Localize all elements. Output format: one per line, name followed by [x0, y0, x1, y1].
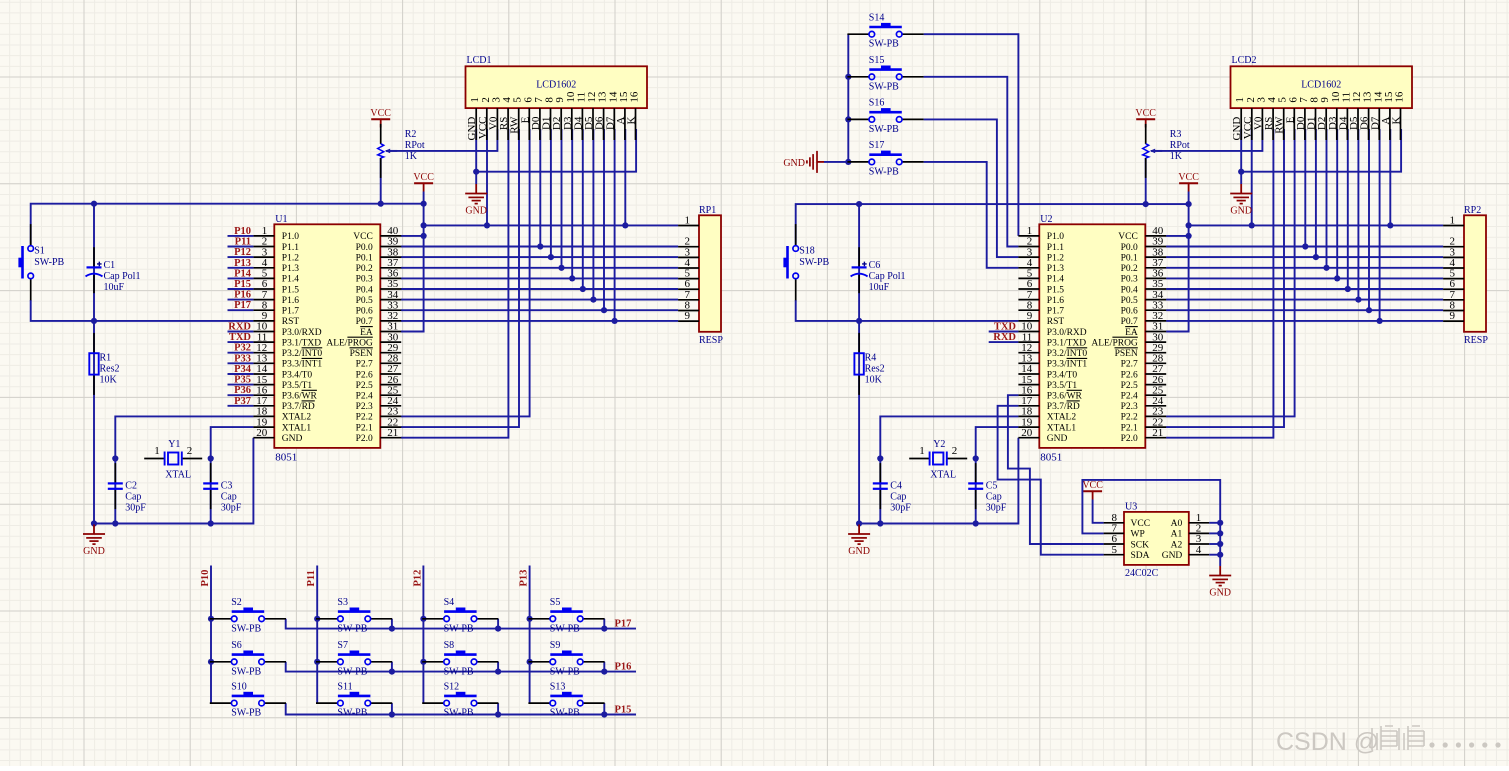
- svg-text:P2.6: P2.6: [356, 370, 373, 380]
- svg-text:GND: GND: [783, 158, 805, 169]
- svg-text:SW-PB: SW-PB: [550, 623, 580, 634]
- svg-text:P1.0: P1.0: [282, 232, 299, 242]
- svg-text:P1.4: P1.4: [1047, 275, 1064, 285]
- svg-text:SW-PB: SW-PB: [337, 708, 367, 719]
- svg-text:S13: S13: [550, 681, 566, 692]
- svg-text:EA: EA: [360, 328, 373, 338]
- svg-text:P3.6/WR: P3.6/WR: [282, 392, 318, 402]
- svg-text:C4: C4: [890, 481, 902, 492]
- svg-text:SW-PB: SW-PB: [869, 39, 899, 50]
- svg-text:R1: R1: [100, 353, 112, 364]
- svg-text:P0.1: P0.1: [356, 253, 373, 263]
- svg-text:10K: 10K: [865, 375, 883, 386]
- svg-text:P1.1: P1.1: [282, 243, 299, 253]
- svg-text:S4: S4: [444, 597, 455, 608]
- svg-text:P0.4: P0.4: [1121, 285, 1138, 295]
- svg-text:S7: S7: [337, 640, 348, 651]
- wire LCD1 data D0-D7 drops: [539, 129, 541, 247]
- svg-text:Y2: Y2: [933, 439, 945, 450]
- svg-text:LCD1602: LCD1602: [536, 79, 576, 90]
- svg-text:P2.4: P2.4: [1121, 392, 1138, 402]
- svg-text:S18: S18: [799, 246, 815, 257]
- wire RST net right (S18/C6/R4 to U2 pin 9): [796, 300, 1019, 321]
- wire VCC rail right (S18/C6/R3/VCC): [796, 204, 1189, 246]
- svg-text:P3.0/RXD: P3.0/RXD: [1047, 328, 1087, 338]
- wire LCD2 data D0-D7 drops: [1304, 129, 1306, 247]
- svg-text:1: 1: [919, 445, 925, 457]
- wire row net P16: [286, 661, 636, 674]
- wire LCD2 pin15 A drop: [1389, 129, 1391, 225]
- wire R3 bottom to rail: [1145, 158, 1147, 204]
- resistor R4 Res2 10K: [854, 333, 884, 395]
- svg-text:30pF: 30pF: [221, 503, 242, 514]
- wire LCD1 pin16 K to GND: [476, 129, 636, 172]
- svg-text:VCC: VCC: [353, 232, 373, 242]
- svg-text:P3.2/INT0: P3.2/INT0: [1047, 349, 1088, 359]
- svg-text:S3: S3: [337, 597, 348, 608]
- power VCC symbol above R2: [370, 108, 391, 128]
- pushbutton S8 SW-PB: [422, 640, 498, 677]
- svg-text:P32: P32: [234, 343, 251, 354]
- wire RST net (S1 bottom / C1 / R1 to U1 pin 9): [31, 300, 254, 321]
- svg-text:SCK: SCK: [1131, 540, 1150, 550]
- net labels P10-P17 on U1 pins 1-8: [228, 226, 254, 311]
- power VCC symbol at U3: [1082, 480, 1103, 500]
- svg-text:A1: A1: [1171, 530, 1183, 540]
- svg-text:EA: EA: [1125, 328, 1138, 338]
- wire crystal net / C2 / C3 verticals: [114, 459, 116, 524]
- svg-text:S12: S12: [444, 681, 460, 692]
- svg-text:SW-PB: SW-PB: [869, 166, 899, 177]
- svg-text:VCC: VCC: [1082, 480, 1103, 491]
- svg-text:P2.3: P2.3: [1121, 402, 1138, 412]
- svg-text:Cap: Cap: [125, 492, 141, 503]
- svg-text:P0.1: P0.1: [1121, 253, 1138, 263]
- wire LCD2 pin1 GND drop: [1240, 129, 1242, 184]
- wire U3 right pins to GND column: [1209, 520, 1223, 558]
- wire R2 wiper to LCD1 V0: [386, 129, 497, 151]
- svg-text:SW-PB: SW-PB: [231, 666, 261, 677]
- svg-text:P3.0/RXD: P3.0/RXD: [282, 328, 322, 338]
- svg-text:9: 9: [685, 310, 691, 322]
- power GND symbol below LCD1: [465, 184, 487, 217]
- svg-text:P3.6/WR: P3.6/WR: [1047, 392, 1083, 402]
- wire C6 vertical: [858, 204, 860, 321]
- wire XTAL1 (U1 pin19) to Y1/C3: [211, 427, 254, 458]
- svg-text:C5: C5: [986, 481, 998, 492]
- wire R3 wiper to LCD2 V0: [1151, 129, 1262, 151]
- svg-text:P0.3: P0.3: [356, 275, 373, 285]
- pushbutton S6 SW-PB: [210, 640, 286, 677]
- svg-text:P14: P14: [234, 268, 252, 279]
- junction dots on right VCC net: [856, 201, 1393, 239]
- svg-text:P1.6: P1.6: [1047, 296, 1064, 306]
- resistor R3 RPot 1K: [1143, 124, 1190, 178]
- pushbutton S13 SW-PB: [528, 681, 604, 718]
- wire LCD2 pin16 K to GND: [1241, 129, 1401, 172]
- wire VCC line to RP1 pin 1: [424, 224, 678, 226]
- pushbutton S16 SW-PB: [847, 98, 923, 135]
- svg-text:VCC: VCC: [1178, 172, 1199, 183]
- wire right crystal net / C4 / C5 verticals: [879, 459, 881, 524]
- svg-text:SW-PB: SW-PB: [444, 666, 474, 677]
- svg-text:21: 21: [387, 427, 398, 439]
- svg-text:1: 1: [685, 215, 691, 227]
- svg-text:P0.7: P0.7: [356, 317, 373, 327]
- svg-text:P2.0: P2.0: [356, 434, 373, 444]
- svg-text:P0.6: P0.6: [356, 307, 373, 317]
- svg-text:K: K: [1391, 117, 1403, 125]
- memory IC U3 24C02C: [1124, 501, 1189, 579]
- svg-text:P1.2: P1.2: [282, 253, 299, 263]
- svg-text:VCC: VCC: [413, 172, 434, 183]
- svg-text:PSEN: PSEN: [1115, 349, 1138, 359]
- svg-text:S8: S8: [444, 640, 455, 651]
- svg-text:SW-PB: SW-PB: [444, 623, 474, 634]
- pushbutton S15 SW-PB: [847, 55, 923, 92]
- svg-text:XTAL1: XTAL1: [1047, 423, 1077, 433]
- wire U2 VCC pin 40 stub: [1166, 235, 1189, 237]
- svg-text:P0.5: P0.5: [356, 296, 373, 306]
- svg-text:P3.2/INT0: P3.2/INT0: [282, 349, 323, 359]
- svg-text:VCC: VCC: [1118, 232, 1138, 242]
- pushbutton S4 SW-PB: [422, 597, 498, 634]
- svg-text:Cap: Cap: [986, 492, 1002, 503]
- op IC U1 8051: [274, 214, 380, 464]
- svg-text:5: 5: [1112, 544, 1118, 556]
- svg-text:RPot: RPot: [405, 140, 425, 151]
- svg-text:ALE/PROG: ALE/PROG: [326, 338, 373, 348]
- svg-text:WP: WP: [1131, 530, 1145, 540]
- svg-text:P13: P13: [519, 570, 530, 587]
- wire S14-S17 common column to GND: [847, 34, 849, 162]
- svg-text:LCD2: LCD2: [1232, 55, 1257, 66]
- svg-text:20: 20: [1021, 427, 1033, 439]
- svg-text:P2.1: P2.1: [356, 423, 373, 433]
- svg-text:8051: 8051: [275, 451, 297, 463]
- svg-text:P0.6: P0.6: [1121, 307, 1138, 317]
- connector LCD1 LCD1602: [466, 55, 648, 108]
- svg-text:P0.2: P0.2: [1121, 264, 1138, 274]
- svg-text:P2.3: P2.3: [356, 402, 373, 412]
- pushbutton S1 SW-PB: [18, 224, 64, 300]
- svg-text:P1.1: P1.1: [1047, 243, 1064, 253]
- svg-text:9: 9: [1450, 310, 1456, 322]
- junction dots on VCC net: [91, 201, 629, 239]
- net labels RXD TXD on U1 pins 10-11: [228, 322, 254, 344]
- pushbutton S5 SW-PB: [528, 597, 604, 634]
- svg-text:P3.3/INT1: P3.3/INT1: [1047, 360, 1088, 370]
- svg-text:RPot: RPot: [1170, 140, 1190, 151]
- svg-text:P3.7/RD: P3.7/RD: [1047, 402, 1080, 412]
- svg-text:P0.3: P0.3: [1121, 275, 1138, 285]
- wire VCC drop to U1 pin40 and EA: [401, 192, 424, 332]
- svg-text:2: 2: [952, 445, 958, 457]
- svg-text:P2.0: P2.0: [1121, 434, 1138, 444]
- svg-text:Res2: Res2: [865, 364, 885, 375]
- wire LCD1 RW to U1 P2.1: [401, 129, 519, 427]
- svg-text:P34: P34: [234, 364, 252, 375]
- svg-text:P2.5: P2.5: [356, 381, 373, 391]
- svg-text:RP1: RP1: [699, 205, 716, 216]
- resistor R2 RPot 1K: [378, 124, 425, 178]
- svg-text:XTAL: XTAL: [165, 470, 191, 481]
- capacitor C2 30pF: [108, 463, 147, 513]
- svg-text:P1.3: P1.3: [282, 264, 299, 274]
- svg-text:P3.1/TXD: P3.1/TXD: [1047, 338, 1086, 348]
- svg-text:P10: P10: [234, 226, 251, 237]
- pushbutton S12 SW-PB: [422, 681, 498, 718]
- svg-text:XTAL2: XTAL2: [282, 413, 312, 423]
- svg-text:PSEN: PSEN: [350, 349, 373, 359]
- svg-text:P0.0: P0.0: [356, 243, 373, 253]
- svg-text:P0.4: P0.4: [356, 285, 373, 295]
- svg-text:P13: P13: [234, 258, 251, 269]
- svg-text:C6: C6: [869, 260, 881, 271]
- wire LCD1 E to U1 P2.2: [401, 129, 530, 416]
- pushbutton S10 SW-PB: [210, 681, 286, 718]
- svg-text:P2.5: P2.5: [1121, 381, 1138, 391]
- net labels P32-P37 on U1 pins 12-17: [228, 343, 254, 407]
- wire LCD2 E to U2 P2.2: [1166, 129, 1295, 416]
- wire R4 to GND rail: [858, 321, 860, 524]
- svg-text:30pF: 30pF: [125, 503, 146, 514]
- wire row net P17: [286, 618, 636, 631]
- wire P0 bus rows U2 to RP2: [1166, 246, 1443, 248]
- wire XTAL1 (U2 pin19) to Y2/C5: [976, 427, 1019, 458]
- svg-text:P1.5: P1.5: [1047, 285, 1064, 295]
- svg-text:P1.2: P1.2: [1047, 253, 1064, 263]
- wire SCK U2 P3.6 to U3: [1008, 395, 1104, 544]
- svg-text:Cap Pol1: Cap Pol1: [869, 271, 906, 282]
- svg-text:SW-PB: SW-PB: [550, 708, 580, 719]
- svg-text:SW-PB: SW-PB: [444, 708, 474, 719]
- svg-text:P2.2: P2.2: [356, 413, 373, 423]
- svg-text:P2.7: P2.7: [356, 360, 373, 370]
- svg-text:GND: GND: [1230, 206, 1252, 217]
- wire LCD2 pin2 VCC drop: [1251, 129, 1253, 225]
- svg-text:RST: RST: [282, 317, 300, 327]
- svg-text:P17: P17: [615, 618, 632, 629]
- connector LCD2 LCD1602: [1231, 55, 1413, 108]
- svg-text:XTAL2: XTAL2: [1047, 413, 1077, 423]
- svg-text:1K: 1K: [405, 151, 418, 162]
- svg-text:Res2: Res2: [100, 364, 120, 375]
- svg-text:VCC: VCC: [1135, 108, 1156, 119]
- svg-text:P1.3: P1.3: [1047, 264, 1064, 274]
- svg-text:GND: GND: [1209, 588, 1231, 599]
- svg-text:P3.7/RD: P3.7/RD: [282, 402, 315, 412]
- svg-text:TXD: TXD: [994, 322, 1017, 333]
- svg-text:P3.3/INT1: P3.3/INT1: [282, 360, 323, 370]
- svg-text:P2.7: P2.7: [1121, 360, 1138, 370]
- capacitor C6 Cap Pol1 10uF: [851, 247, 906, 293]
- svg-text:P2.1: P2.1: [1121, 423, 1138, 433]
- svg-text:P1.0: P1.0: [1047, 232, 1064, 242]
- svg-text:U3: U3: [1125, 501, 1137, 512]
- capacitor C4 30pF: [873, 463, 912, 513]
- op IC U2 8051: [1039, 214, 1145, 464]
- resistor R1 Res2 10K: [89, 333, 119, 395]
- svg-text:SW-PB: SW-PB: [231, 623, 261, 634]
- wire LCD1 pin2 VCC drop: [486, 129, 488, 225]
- wire U3 VCC pin 8: [1093, 500, 1104, 523]
- pushbutton S9 SW-PB: [528, 640, 604, 677]
- pushbutton S2 SW-PB: [210, 597, 286, 634]
- wire S15 to U2 pin 2: [924, 77, 1019, 247]
- resistor pack RP2 RESP: [1464, 205, 1488, 346]
- svg-text:30pF: 30pF: [890, 503, 911, 514]
- svg-text:S16: S16: [869, 98, 885, 109]
- power GND symbol bottom left: [83, 525, 105, 558]
- svg-text:VCC: VCC: [370, 108, 391, 119]
- svg-text:XTAL1: XTAL1: [282, 423, 312, 433]
- svg-text:10uF: 10uF: [104, 282, 125, 293]
- svg-text:RESP: RESP: [699, 335, 723, 346]
- wire R2 bottom to rail: [380, 158, 382, 204]
- wire SDA U2 P3.7 to U3: [998, 406, 1104, 555]
- wire GND rail to U2 pin 20: [859, 438, 1018, 524]
- svg-text:P0.7: P0.7: [1121, 317, 1138, 327]
- wire XTAL2 (U2 pin18) to Y2/C4: [880, 416, 1018, 458]
- svg-text:SW-PB: SW-PB: [34, 257, 64, 268]
- svg-text:P0.0: P0.0: [1121, 243, 1138, 253]
- svg-text:GND: GND: [848, 546, 870, 557]
- svg-text:P2.6: P2.6: [1121, 370, 1138, 380]
- wire S14 to U2 pin 1: [924, 34, 1019, 236]
- svg-text:S14: S14: [869, 13, 885, 24]
- svg-text:P3.1/TXD: P3.1/TXD: [282, 338, 321, 348]
- svg-text:P15: P15: [234, 279, 251, 290]
- svg-text:P35: P35: [234, 375, 251, 386]
- wire R1 to GND rail: [93, 321, 95, 524]
- svg-text:XTAL: XTAL: [930, 470, 956, 481]
- power GND symbol bottom right: [848, 525, 870, 558]
- svg-text:SW-PB: SW-PB: [869, 81, 899, 92]
- wire LCD1 pin1 GND drop: [475, 129, 477, 184]
- svg-text:A0: A0: [1171, 519, 1183, 529]
- svg-text:C2: C2: [125, 481, 137, 492]
- crystal Y1 XTAL: [144, 439, 202, 481]
- pushbutton S18 SW-PB: [783, 224, 829, 300]
- svg-text:S6: S6: [231, 640, 242, 651]
- svg-text:C1: C1: [104, 260, 116, 271]
- svg-text:8051: 8051: [1040, 451, 1062, 463]
- watermark CSDN: [1276, 728, 1379, 756]
- svg-text:P12: P12: [412, 570, 423, 587]
- svg-text:S15: S15: [869, 55, 885, 66]
- wire LCD1 pin15 A drop: [624, 129, 626, 225]
- svg-text:S9: S9: [550, 640, 561, 651]
- svg-text:SW-PB: SW-PB: [337, 666, 367, 677]
- svg-text:P33: P33: [234, 353, 251, 364]
- svg-text:P15: P15: [615, 704, 632, 715]
- net labels TXD RXD on U2 pins 10-11: [989, 322, 1019, 344]
- svg-text:10K: 10K: [100, 375, 118, 386]
- svg-text:RST: RST: [1047, 317, 1065, 327]
- svg-text:4: 4: [1196, 544, 1202, 556]
- svg-text:P2.2: P2.2: [1121, 413, 1138, 423]
- svg-text:P3.4/T0: P3.4/T0: [282, 370, 313, 380]
- wire U1 VCC pin 40 stub: [401, 235, 424, 237]
- capacitor C1 Cap Pol1 10uF: [86, 247, 141, 293]
- svg-text:SW-PB: SW-PB: [550, 666, 580, 677]
- wire P0 bus rows U1 to RP1: [401, 246, 678, 248]
- keypad column junction dots: [208, 616, 533, 665]
- svg-text:C3: C3: [221, 481, 233, 492]
- svg-text:P3.5/T1: P3.5/T1: [1047, 381, 1078, 391]
- capacitor C3 30pF: [203, 463, 242, 513]
- svg-text:Cap: Cap: [890, 492, 906, 503]
- pushbutton S17 SW-PB: [847, 140, 923, 177]
- pushbutton S7 SW-PB: [316, 640, 392, 677]
- svg-text:P12: P12: [234, 247, 251, 258]
- svg-text:P1.7: P1.7: [282, 307, 299, 317]
- keypad column wires P10-P13: [211, 566, 530, 704]
- svg-text:16: 16: [629, 91, 641, 103]
- svg-text:U2: U2: [1040, 214, 1052, 225]
- net labels P10 P11 P12 P13 (rotated): [200, 570, 530, 587]
- svg-text:CSDN @: CSDN @: [1276, 728, 1379, 756]
- svg-text:P1.7: P1.7: [1047, 307, 1064, 317]
- svg-text:LCD1602: LCD1602: [1301, 79, 1341, 90]
- svg-text:P11: P11: [235, 237, 251, 248]
- svg-text:GND: GND: [1162, 551, 1183, 561]
- svg-text:P3.5/T1: P3.5/T1: [282, 381, 313, 391]
- svg-text:K: K: [626, 117, 638, 125]
- svg-text:S11: S11: [337, 681, 352, 692]
- svg-text:LCD1: LCD1: [467, 55, 492, 66]
- svg-text:P10: P10: [200, 570, 211, 587]
- wire LCD2 RS to U2 P2.0: [1166, 129, 1273, 438]
- capacitor C5 30pF: [968, 463, 1007, 513]
- svg-text:RXD: RXD: [228, 322, 251, 333]
- power VCC symbol at U1 pin 40: [413, 172, 434, 192]
- svg-text:S5: S5: [550, 597, 561, 608]
- svg-text:RXD: RXD: [993, 332, 1016, 343]
- wire VCC line to RP2 pin 1: [1189, 224, 1444, 226]
- svg-text:U1: U1: [275, 214, 287, 225]
- power VCC symbol above R3: [1135, 108, 1156, 128]
- svg-text:1: 1: [154, 445, 160, 457]
- pushbutton S11 SW-PB: [316, 681, 392, 718]
- svg-text:ALE/PROG: ALE/PROG: [1091, 338, 1138, 348]
- svg-text:GND: GND: [465, 206, 487, 217]
- svg-text:P0.2: P0.2: [356, 264, 373, 274]
- power GND symbol (rotated) left of S17: [783, 151, 824, 173]
- svg-text:SW-PB: SW-PB: [799, 257, 829, 268]
- pushbutton S14 SW-PB: [847, 13, 923, 50]
- power GND symbol below LCD2: [1230, 184, 1252, 217]
- svg-text:P16: P16: [615, 661, 632, 672]
- pushbutton S3 SW-PB: [316, 597, 392, 634]
- svg-text:21: 21: [1152, 427, 1163, 439]
- svg-text:P36: P36: [234, 385, 251, 396]
- svg-text:24C02C: 24C02C: [1125, 568, 1159, 579]
- wire XTAL2 (U1 pin18) to Y1/C2: [115, 416, 253, 458]
- svg-text:P17: P17: [234, 300, 251, 311]
- wire VCC rail (S1/C1/R2/VCC): [31, 204, 424, 246]
- svg-text:S1: S1: [34, 246, 45, 257]
- svg-text:R4: R4: [865, 353, 877, 364]
- svg-text:20: 20: [256, 427, 268, 439]
- svg-text:SW-PB: SW-PB: [869, 124, 899, 135]
- svg-text:16: 16: [1394, 91, 1406, 103]
- svg-text:GND: GND: [83, 546, 105, 557]
- svg-text:10uF: 10uF: [869, 282, 890, 293]
- wire GND stub to switch column: [824, 161, 848, 163]
- wire S16 to U2 pin 3: [924, 119, 1019, 257]
